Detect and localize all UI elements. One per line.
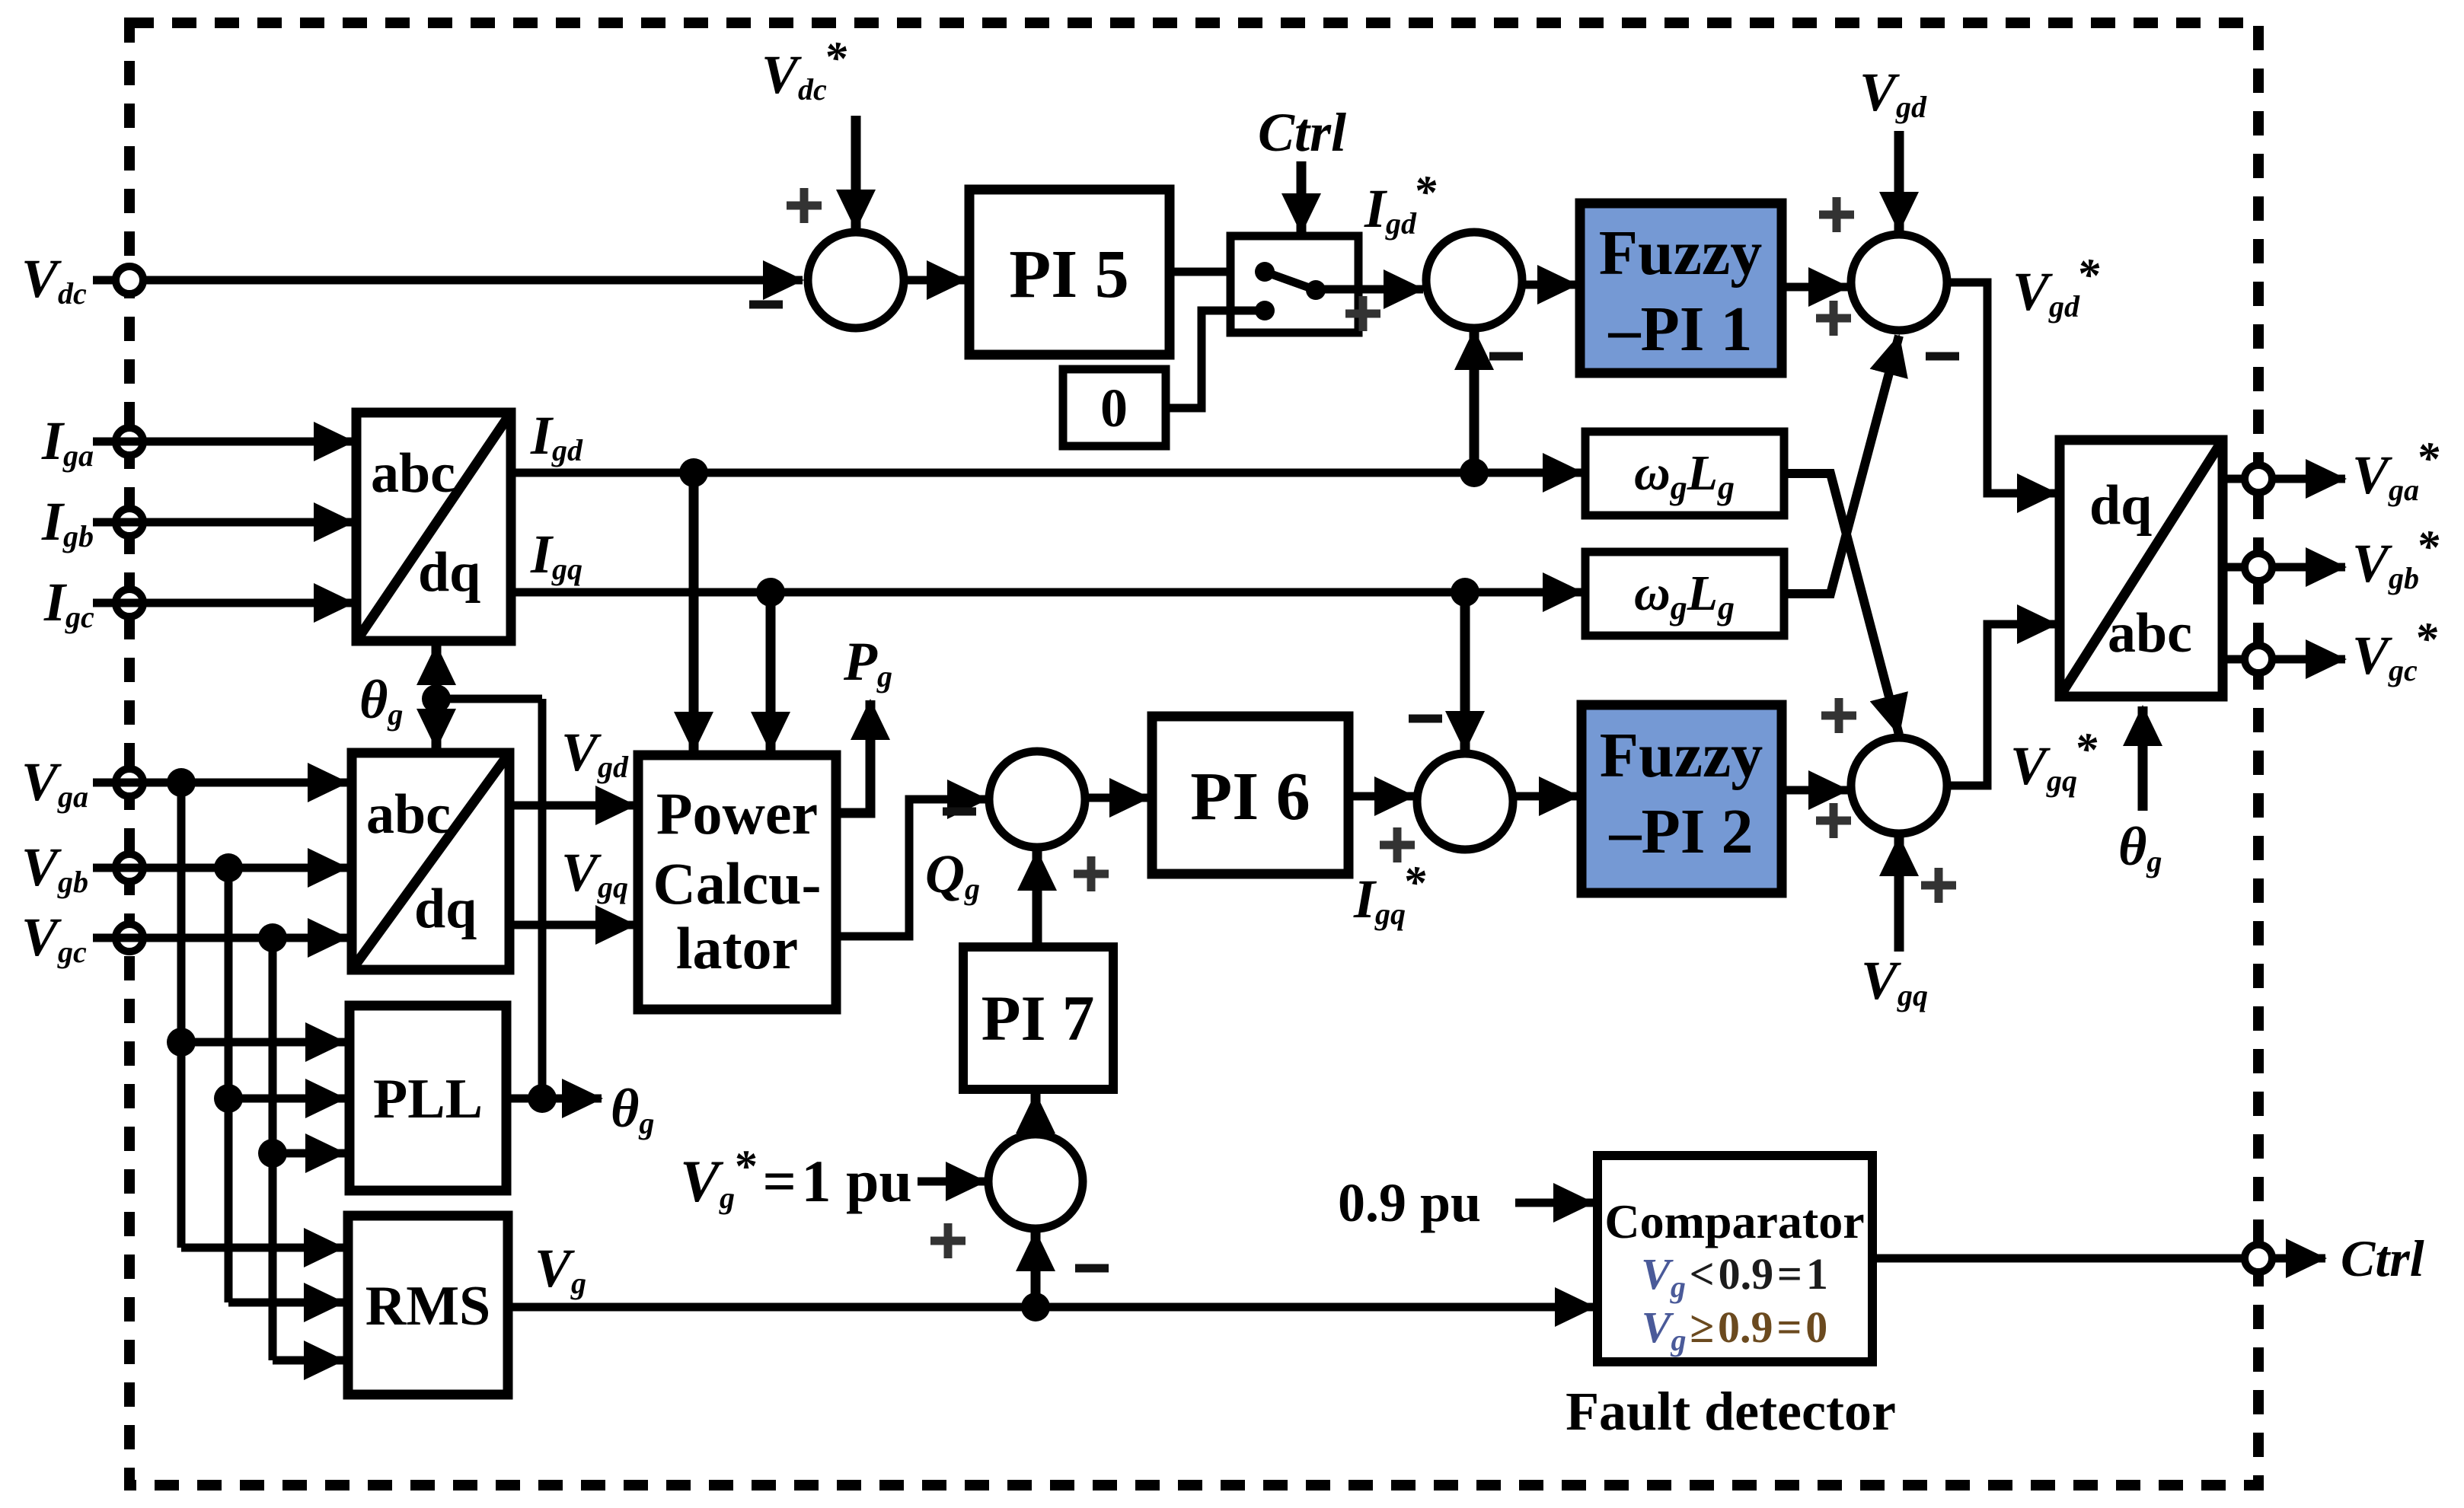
svg-text:Power: Power [656, 780, 818, 846]
svg-text:0.9 pu: 0.9 pu [1338, 1172, 1481, 1233]
svg-text:Comparator: Comparator [1604, 1194, 1864, 1248]
svg-text:0: 0 [1100, 378, 1128, 438]
svg-text:Vg < 0.9 = 1: Vg < 0.9 = 1 [1641, 1249, 1828, 1304]
svg-text:dq: dq [418, 541, 480, 604]
svg-text:–PI 1: –PI 1 [1608, 294, 1753, 365]
svg-text:Calcu-: Calcu- [653, 850, 822, 917]
svg-text:Ctrl: Ctrl [2341, 1229, 2424, 1287]
svg-text:Vg* = 1 pu: Vg* = 1 pu [680, 1141, 912, 1215]
svg-text:dq: dq [414, 878, 477, 940]
svg-text:Fuzzy: Fuzzy [1600, 720, 1763, 791]
svg-text:PI 7: PI 7 [981, 983, 1095, 1054]
svg-text:PI 5: PI 5 [1009, 237, 1129, 312]
svg-text:PLL: PLL [373, 1068, 483, 1130]
svg-text:Ctrl: Ctrl [1258, 102, 1346, 163]
svg-text:abc: abc [2108, 602, 2192, 665]
svg-text:lator: lator [676, 915, 798, 981]
svg-text:abc: abc [371, 442, 455, 505]
svg-text:PI 6: PI 6 [1190, 759, 1310, 834]
svg-text:Fault detector: Fault detector [1566, 1381, 1896, 1442]
svg-text:dq: dq [2089, 474, 2152, 537]
svg-text:Vg ≥ 0.9 = 0: Vg ≥ 0.9 = 0 [1642, 1302, 1827, 1357]
svg-text:–PI 2: –PI 2 [1609, 796, 1754, 867]
svg-text:Fuzzy: Fuzzy [1599, 218, 1763, 289]
svg-text:abc: abc [366, 783, 451, 846]
svg-text:RMS: RMS [365, 1275, 490, 1337]
